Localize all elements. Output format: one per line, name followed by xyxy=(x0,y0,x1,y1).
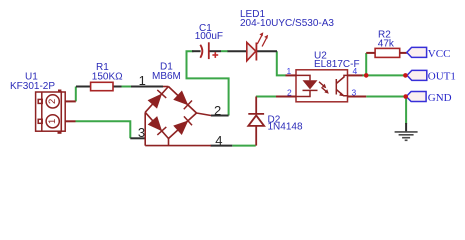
svg-text:150KΩ: 150KΩ xyxy=(92,72,123,83)
svg-text:VCC: VCC xyxy=(428,48,451,60)
svg-text:2: 2 xyxy=(47,99,58,104)
svg-text:4: 4 xyxy=(353,66,358,76)
svg-text:GND: GND xyxy=(428,92,452,104)
svg-text:1N4148: 1N4148 xyxy=(268,122,303,133)
svg-text:4: 4 xyxy=(215,133,222,148)
svg-text:2: 2 xyxy=(287,87,292,97)
svg-text:2: 2 xyxy=(214,103,221,118)
svg-text:KF301-2P: KF301-2P xyxy=(10,81,55,92)
svg-text:OUT1: OUT1 xyxy=(428,70,456,82)
svg-text:47k: 47k xyxy=(378,38,395,49)
svg-text:1: 1 xyxy=(139,73,146,88)
svg-text:3: 3 xyxy=(138,125,145,140)
svg-text:100uF: 100uF xyxy=(195,31,223,42)
svg-text:3: 3 xyxy=(352,87,357,97)
svg-text:204-10UYC/S530-A3: 204-10UYC/S530-A3 xyxy=(240,18,334,29)
svg-text:1: 1 xyxy=(47,119,58,124)
svg-text:MB6M: MB6M xyxy=(152,71,181,82)
svg-text:1: 1 xyxy=(287,66,292,76)
